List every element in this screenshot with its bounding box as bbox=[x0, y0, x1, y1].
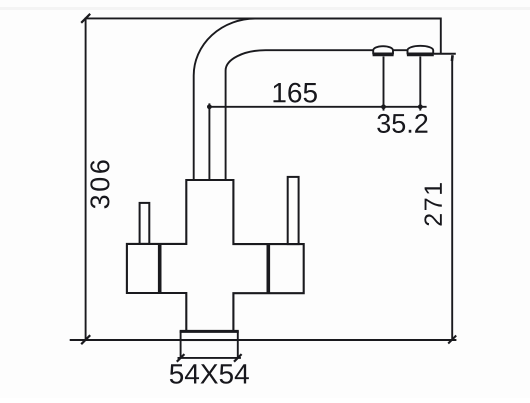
tick top of 306 bbox=[81, 14, 90, 23]
dimension line 271 vertical bbox=[451, 56, 453, 340]
tick right of 54x54 bbox=[234, 354, 242, 362]
dimension label 54X54 bbox=[170, 364, 249, 384]
countertop line bbox=[70, 339, 457, 341]
dimension line 306 vertical bbox=[85, 18, 87, 340]
dimension label 306 rotated bbox=[90, 160, 109, 208]
dimension label 35.2 bbox=[377, 114, 427, 133]
extension line bump2 center bbox=[419, 57, 421, 111]
left arm divider bbox=[158, 244, 162, 293]
faucet body cross outline bbox=[127, 180, 304, 331]
dimension dots on 165/35.2 line bbox=[207, 104, 423, 109]
right arm divider bbox=[266, 244, 270, 293]
extension to 271 dim line bbox=[434, 53, 456, 55]
spout centerline extension bbox=[208, 103, 210, 180]
aerator bump 2 bbox=[408, 46, 434, 54]
spout outer contour bbox=[194, 19, 441, 181]
left lever bbox=[140, 203, 150, 244]
top extension line (spout top level) bbox=[85, 17, 442, 19]
base extension left bbox=[180, 340, 182, 358]
tick bottom of 271 bbox=[448, 336, 456, 344]
spout inner contour + underside bbox=[226, 50, 408, 180]
dimension line 54x54 bbox=[178, 357, 241, 359]
dimension line 165 / 35.2 bbox=[207, 106, 426, 108]
extension line bump1 center bbox=[383, 57, 385, 111]
dimension label 165 bbox=[273, 83, 316, 103]
aerator bump 1 bbox=[373, 46, 393, 53]
right lever bbox=[288, 177, 299, 244]
base plate bbox=[181, 331, 238, 340]
dimension label 271 rotated bbox=[424, 183, 441, 225]
tick top of 271 bbox=[451, 55, 454, 61]
tick left of 54x54 bbox=[177, 354, 185, 362]
base extension right bbox=[237, 340, 239, 358]
tick bottom of 306 bbox=[81, 335, 90, 344]
